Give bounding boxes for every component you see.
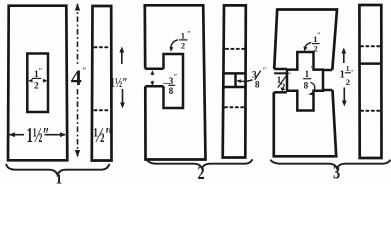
notch bottom line piece C bbox=[145, 85, 163, 88]
svg-text:″: ″ bbox=[263, 66, 266, 75]
dotted shoulder line lower on piece B bbox=[95, 109, 111, 111]
left notch top line piece D bbox=[274, 68, 287, 71]
svg-text:″: ″ bbox=[174, 72, 177, 81]
piece B outline (group 1 tenon bar, edge view) bbox=[92, 6, 112, 161]
slot cutout in piece C bbox=[164, 54, 184, 108]
4 inch dash-dot dimension line bbox=[77, 4, 79, 64]
leader arrow for top half-inch label of piece D bbox=[305, 43, 312, 48]
notch box bottom line on bar 2 bbox=[224, 86, 246, 89]
svg-text:2: 2 bbox=[314, 43, 318, 53]
svg-text:4: 4 bbox=[71, 65, 82, 90]
dotted line upper on bar 3 bbox=[361, 45, 380, 47]
svg-text:8: 8 bbox=[169, 86, 174, 96]
leader arrow for eighth-inch label of piece D bbox=[310, 82, 314, 94]
svg-text:2: 2 bbox=[346, 77, 350, 87]
svg-text:1: 1 bbox=[340, 70, 345, 81]
svg-text:2: 2 bbox=[198, 162, 205, 183]
svg-text:″: ″ bbox=[83, 66, 87, 76]
piece D outline (group 3 stile with through mortise) bbox=[274, 10, 337, 157]
notch box divider on bar 2 bbox=[234, 73, 237, 87]
minus three-eighths label in piece C bbox=[162, 72, 177, 96]
svg-text:1½″: 1½″ bbox=[27, 124, 50, 147]
dimension arrows for bar 3 bbox=[343, 51, 345, 63]
brace under group 2 bbox=[147, 159, 253, 168]
right notch bottom line piece D bbox=[323, 89, 332, 92]
group number 3 bbox=[333, 162, 340, 183]
half-inch label above plus cutout of piece D bbox=[312, 31, 321, 53]
dotted line upper on bar 2 bbox=[226, 48, 244, 50]
mortise rectangle in piece A bbox=[27, 54, 48, 113]
half-inch label in left notch of piece D bbox=[277, 71, 291, 92]
svg-text:1: 1 bbox=[305, 69, 310, 79]
svg-text:3: 3 bbox=[252, 71, 257, 81]
svg-text:2: 2 bbox=[34, 81, 39, 91]
tiny arrow under left half-inch label of piece D bbox=[282, 88, 284, 90]
svg-text:″: ″ bbox=[39, 67, 42, 76]
svg-text:8: 8 bbox=[255, 81, 260, 91]
brace under group 3 bbox=[271, 160, 391, 169]
piece C outline (group 2, open slot stile) bbox=[145, 5, 206, 159]
leader arrow for half-inch label of piece C bbox=[171, 40, 178, 48]
group number 2 bbox=[198, 162, 205, 183]
bar 2 outline (group 2 tenon bar) bbox=[223, 5, 246, 157]
svg-text:1: 1 bbox=[181, 30, 185, 40]
half-inch label on piece B bbox=[94, 123, 114, 146]
three-eighths label right of bar 2 bbox=[252, 66, 266, 90]
svg-text:″: ″ bbox=[311, 65, 314, 74]
solid haunch line on bar 3 bbox=[360, 62, 382, 65]
svg-text:″: ″ bbox=[187, 30, 190, 39]
half-inch dimension arrows inside mortise bbox=[30, 80, 33, 82]
svg-text:3: 3 bbox=[333, 162, 340, 183]
brace under group 1 bbox=[6, 164, 110, 175]
svg-text:1: 1 bbox=[56, 172, 63, 186]
svg-text:″: ″ bbox=[288, 71, 291, 80]
1.5 inch dimension line in piece A bbox=[10, 134, 24, 136]
svg-text:″: ″ bbox=[317, 31, 320, 40]
half-inch label above slot of piece C bbox=[179, 30, 191, 51]
three-eighths mini arrows in piece C notch bbox=[151, 73, 153, 76]
svg-text:8: 8 bbox=[304, 81, 309, 91]
dotted shoulder line upper on piece B bbox=[95, 46, 111, 48]
svg-text:1: 1 bbox=[346, 64, 350, 73]
left notch bottom line piece D bbox=[274, 91, 287, 94]
dotted line lower on bar 3 bbox=[361, 110, 380, 112]
svg-text:2: 2 bbox=[181, 41, 185, 51]
1.5 inch label right of piece B bbox=[110, 74, 128, 90]
half-inch label inside mortise bbox=[32, 67, 42, 92]
bar 3 outline (group 3 tenon bar) bbox=[359, 5, 381, 158]
svg-text:2: 2 bbox=[281, 82, 286, 92]
svg-text:1½″: 1½″ bbox=[110, 74, 128, 90]
dotted line lower on bar 2 bbox=[225, 106, 244, 108]
svg-text:½″: ½″ bbox=[94, 123, 114, 146]
svg-text:″: ″ bbox=[350, 69, 353, 77]
1.5 inch label left of bar 3 bbox=[340, 64, 354, 87]
right notch top line piece D bbox=[323, 69, 332, 72]
plus-shaped cutout in piece D bbox=[287, 52, 323, 111]
1.5 inch label in piece A bbox=[27, 124, 50, 147]
piece A outline (group 1 mortised stile) bbox=[8, 6, 67, 161]
notch box top line on bar 2 bbox=[224, 72, 246, 75]
notch top line piece C bbox=[145, 68, 163, 71]
left notch step line piece D bbox=[274, 72, 287, 74]
eighth-inch label inside plus cutout bbox=[303, 65, 314, 91]
leader arrow for three-eighths label of bar 2 bbox=[239, 80, 253, 82]
1.5 inch dimension arrows right of piece B bbox=[121, 50, 123, 64]
